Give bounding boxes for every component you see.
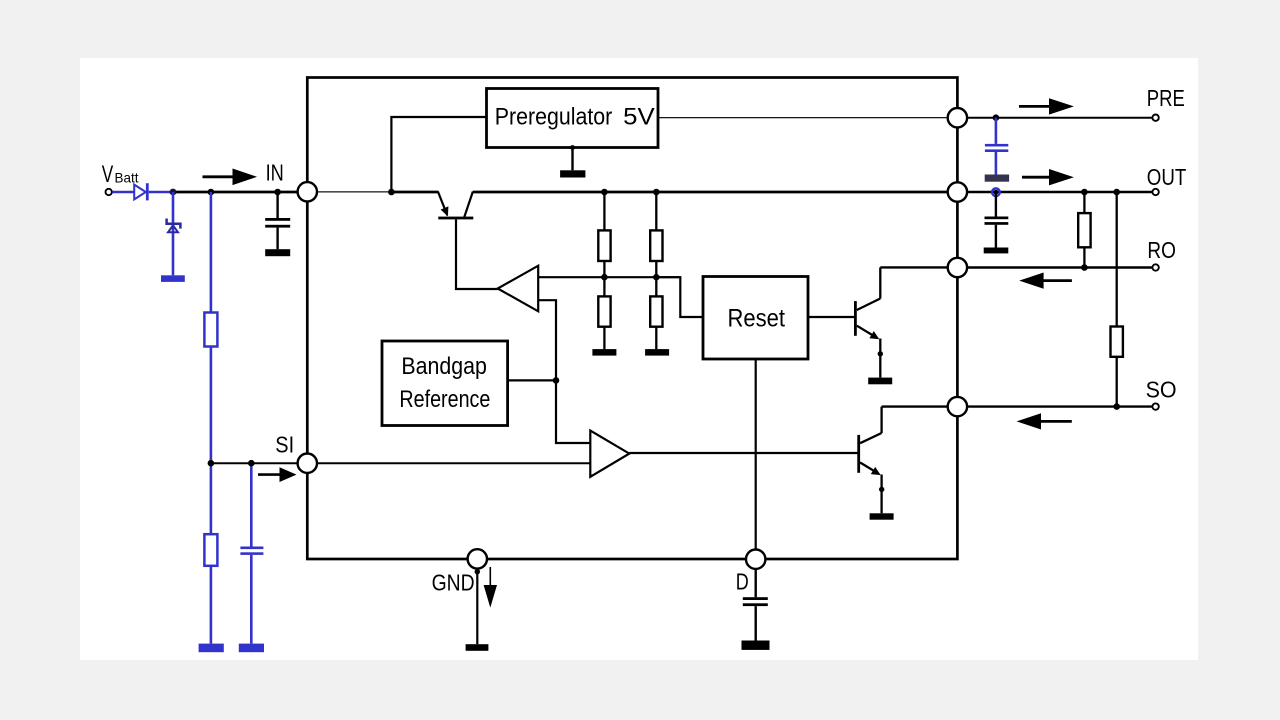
diode D1 (blue, reverse protection)	[134, 183, 149, 200]
wire preregulator input tap	[391, 117, 487, 192]
pin OUT	[948, 182, 967, 201]
node SO junction	[1113, 403, 1120, 410]
node preregulator tap on IN rail	[388, 189, 395, 196]
wire RO line	[967, 266, 1152, 268]
svg-text:Reference: Reference	[399, 386, 490, 413]
svg-text:SO: SO	[1146, 377, 1177, 403]
wire VBatt input rail (black)	[173, 191, 299, 194]
wire bandgap output	[507, 379, 556, 381]
node bandgap reference net	[553, 377, 560, 384]
pin D	[746, 550, 765, 569]
ground SI capacitor (blue)	[239, 644, 264, 653]
node VBatt rail junction	[170, 189, 177, 196]
ground PRE capacitor (dark blue)	[985, 175, 1009, 182]
node divider 1 top	[601, 189, 608, 196]
resistor RO pull-up	[1078, 192, 1090, 268]
label VBatt	[102, 161, 139, 188]
op-amp U1 (comparator, points left)	[498, 266, 539, 312]
wire VBatt to diode (blue)	[112, 191, 134, 194]
svg-text:Bandgap: Bandgap	[401, 353, 487, 380]
capacitor at IN (black)	[265, 192, 290, 249]
ground Q3 emitter	[870, 513, 894, 519]
terminal VBatt	[106, 189, 112, 195]
terminal SO	[1152, 403, 1158, 409]
pin PRE	[948, 108, 967, 127]
arrow GND current direction	[484, 567, 497, 608]
box bandgap reference	[382, 341, 508, 426]
wire OUT line	[967, 191, 1152, 194]
svg-text:V: V	[102, 161, 114, 188]
label Bandgap Reference	[399, 353, 490, 413]
IC boundary box	[307, 78, 957, 560]
svg-text:SI: SI	[275, 432, 294, 458]
ground OUT capacitor	[984, 248, 1009, 254]
node OUT capacitor tap (blue ring)	[992, 188, 1000, 196]
svg-text:Preregulator: Preregulator	[495, 103, 613, 130]
wire reset input	[656, 277, 704, 317]
wire OUT rail from transistor collector to OUT pin	[473, 191, 949, 194]
node OUT sense branch	[1113, 189, 1120, 196]
resistor divider 1 lower	[598, 296, 610, 349]
node RO junction	[1081, 264, 1088, 271]
wire sense divider upper branch (blue)	[210, 192, 213, 313]
svg-text:OUT: OUT	[1147, 164, 1187, 190]
wire OUT to SO column	[1116, 192, 1118, 327]
pin SO	[948, 397, 967, 416]
svg-text:5V: 5V	[623, 103, 655, 130]
wire op-amp output to Q3 base	[629, 452, 858, 454]
wire IN pin to preregulator tap (thin)	[316, 191, 391, 192]
transistor Q2 (NPN reset output)	[854, 267, 949, 377]
resistor sense divider upper (blue)	[204, 313, 217, 347]
svg-text:Batt: Batt	[115, 170, 139, 186]
terminal PRE	[1152, 115, 1158, 121]
pin RO	[948, 258, 967, 277]
ground D capacitor	[742, 641, 770, 650]
wire reset output to Q2 base	[808, 316, 856, 318]
wire comparator reference input from bandgap	[538, 300, 591, 443]
svg-text:Reset: Reset	[728, 305, 786, 333]
wire sense divider middle (blue)	[210, 347, 213, 535]
capacitor PRE bypass (blue)	[985, 118, 1008, 175]
op-amp U2 (sense comparator, points right)	[590, 431, 629, 477]
wire SO line	[967, 405, 1152, 407]
box reset	[703, 277, 808, 360]
wire reset delay to D pin	[755, 359, 757, 550]
ground zener (blue)	[161, 275, 185, 282]
resistor divider 2 lower	[650, 296, 662, 349]
ground for preregulator	[560, 145, 585, 177]
wire sense divider bottom (blue)	[210, 566, 213, 644]
box preregulator 5V	[487, 89, 659, 148]
transistor Q1 (PNP pass transistor)	[438, 192, 473, 220]
svg-text:IN: IN	[266, 159, 284, 185]
ground divider 1	[592, 349, 616, 356]
node divider 2 top	[653, 189, 660, 196]
transistor Q3 (NPN sense output)	[857, 407, 948, 514]
node SI capacitor tap	[248, 460, 255, 467]
wire GND stem	[476, 572, 478, 645]
capacitor delay at D	[743, 569, 768, 641]
wire SI filter cap branch (blue)	[250, 463, 253, 546]
node divider 2 tap	[653, 274, 660, 281]
arrow OUT direction	[1022, 169, 1074, 185]
arrow SO direction (left)	[1017, 413, 1072, 429]
pin SI	[298, 454, 317, 473]
terminal OUT	[1152, 189, 1158, 195]
ground GND pin	[466, 644, 489, 651]
arrow IN direction	[203, 169, 258, 186]
svg-text:PRE: PRE	[1147, 85, 1185, 111]
wire diode to node (blue)	[149, 191, 174, 194]
resistor SO sense	[1111, 327, 1123, 407]
node OUT pull-up branch	[1081, 189, 1088, 196]
ground for IN capacitor	[265, 249, 290, 256]
arrow SI direction	[258, 467, 297, 482]
pin IN	[298, 182, 317, 201]
node GND stem	[475, 569, 480, 574]
wire comparator inverting input from divider	[538, 276, 680, 278]
node divider 1 tap	[601, 274, 608, 281]
arrow RO direction (left)	[1019, 273, 1072, 289]
wire preregulator tap to transistor emitter	[391, 191, 438, 194]
svg-text:GND: GND	[432, 569, 475, 595]
pin GND	[468, 549, 487, 568]
capacitor SI filter (blue)	[240, 547, 263, 644]
svg-text:RO: RO	[1147, 237, 1176, 263]
terminal RO	[1152, 264, 1158, 270]
node SI divider tap	[208, 460, 215, 467]
wire zener branch (blue)	[172, 192, 175, 275]
capacitor OUT bypass (black)	[985, 194, 1009, 248]
wire PRE line	[967, 117, 1152, 119]
arrow PRE direction	[1019, 98, 1074, 114]
resistor sense divider lower (blue)	[204, 534, 217, 566]
node IN rail capacitor branch	[274, 189, 281, 196]
zener diode Z1 (blue)	[167, 219, 181, 233]
ground Q2 emitter	[868, 378, 892, 385]
resistor divider 1 upper	[598, 192, 610, 296]
wire SI input line	[211, 462, 591, 464]
svg-text:D: D	[736, 569, 749, 595]
ground divider 2	[645, 349, 669, 356]
node PRE capacitor tap	[993, 114, 1000, 121]
wire Q1 base to comparator output	[456, 219, 499, 289]
ground sense divider (blue)	[199, 644, 224, 653]
label Preregulator 5V	[495, 103, 655, 130]
resistor divider 2 upper	[650, 192, 662, 296]
node IN rail divider branch	[208, 189, 215, 196]
wire preregulator output to PRE pin (thin)	[658, 117, 949, 118]
